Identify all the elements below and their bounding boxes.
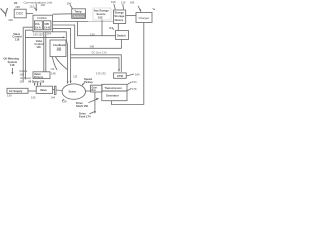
svg-text:112: 112: [30, 5, 35, 9]
svg-text:Generator: Generator: [106, 93, 119, 97]
svg-text:139: 139: [20, 79, 25, 83]
svg-text:DC Bus 136: DC Bus 136: [92, 51, 107, 55]
svg-text:170 172: 170 172: [96, 71, 106, 75]
svg-text:Feed 174: Feed 174: [79, 114, 91, 118]
svg-text:Storage: Storage: [114, 14, 125, 18]
svg-text:Shaft 156: Shaft 156: [76, 104, 88, 108]
svg-text:106: 106: [8, 18, 13, 22]
svg-text:120 122: 120 122: [33, 33, 43, 37]
svg-text:FADEC: FADEC: [37, 16, 48, 20]
svg-text:149: 149: [50, 68, 55, 71]
svg-text:Device: Device: [115, 18, 124, 22]
svg-text:164: 164: [135, 72, 140, 76]
svg-text:106: 106: [111, 0, 116, 4]
svg-text:Exhaust: Exhaust: [21, 76, 32, 80]
svg-text:144: 144: [51, 96, 56, 100]
svg-text:114: 114: [121, 0, 126, 4]
svg-text:104: 104: [67, 1, 72, 5]
svg-text:118: 118: [10, 63, 15, 67]
svg-text:15B: 15B: [44, 23, 49, 26]
svg-text:Ch B: Ch B: [44, 26, 50, 29]
svg-text:Stator: Stator: [69, 90, 77, 94]
svg-text:102: 102: [41, 3, 46, 7]
svg-text:134: 134: [90, 32, 95, 36]
svg-text:102: 102: [98, 15, 103, 19]
svg-text:Drivers: Drivers: [34, 75, 44, 79]
svg-text:176: 176: [132, 87, 137, 91]
svg-text:Transmission: Transmission: [105, 86, 123, 90]
svg-text:Switch: Switch: [117, 34, 126, 38]
svg-text:Source: Source: [97, 12, 107, 16]
svg-text:Feedback: Feedback: [53, 43, 66, 47]
svg-text:138: 138: [20, 72, 25, 76]
svg-text:100: 100: [130, 0, 135, 4]
svg-text:116: 116: [15, 37, 20, 41]
svg-text:108: 108: [15, 5, 20, 9]
svg-text:148: 148: [36, 46, 41, 49]
svg-text:Air Supply: Air Supply: [9, 89, 23, 93]
svg-text:110: 110: [109, 26, 114, 30]
svg-text:Energy: Energy: [115, 11, 125, 15]
svg-text:CTM: CTM: [117, 74, 124, 78]
svg-text:146: 146: [90, 45, 95, 49]
svg-text:Sensors: Sensors: [74, 14, 85, 18]
svg-text:Temp: Temp: [75, 9, 82, 13]
svg-text:154: 154: [132, 80, 137, 84]
svg-text:Charger: Charger: [139, 16, 150, 20]
svg-text:126: 126: [62, 100, 67, 104]
svg-text:130: 130: [7, 93, 12, 97]
svg-text:84 Device 128: 84 Device 128: [29, 80, 45, 83]
svg-text:Valve: Valve: [40, 88, 47, 92]
svg-text:Box: Box: [92, 90, 97, 92]
svg-text:Aux Energy: Aux Energy: [94, 8, 109, 12]
svg-text:DSC: DSC: [16, 12, 24, 16]
svg-text:Pickup: Pickup: [84, 80, 93, 84]
svg-text:148: 148: [51, 72, 56, 76]
svg-text:124: 124: [47, 31, 52, 35]
svg-text:142: 142: [57, 47, 62, 51]
svg-text:Ch A: Ch A: [35, 26, 41, 29]
svg-text:15A: 15A: [35, 23, 40, 26]
svg-text:Communications Link: Communications Link: [24, 1, 53, 5]
svg-text:122: 122: [73, 76, 78, 79]
svg-text:132: 132: [31, 95, 36, 99]
svg-text:20: 20: [14, 1, 18, 5]
svg-text:Intake: Intake: [20, 69, 28, 73]
